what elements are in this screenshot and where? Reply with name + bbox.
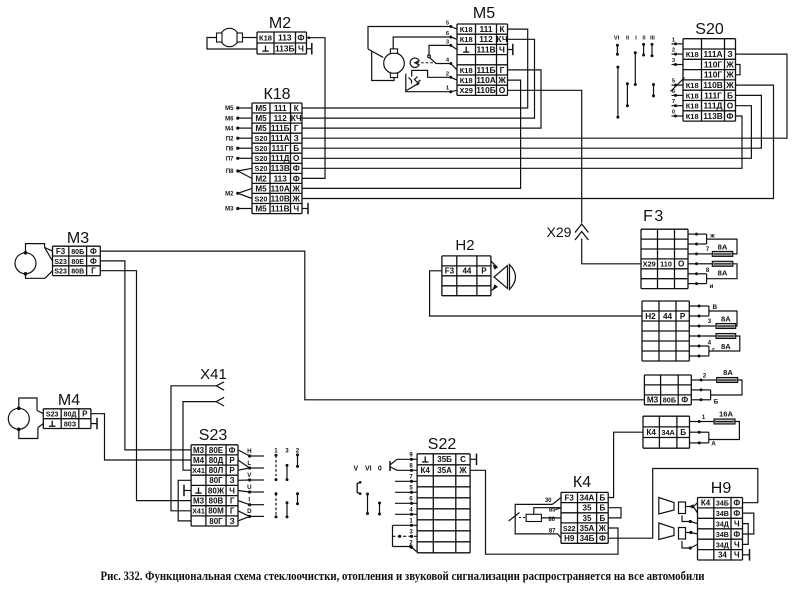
svg-text:S23: S23	[54, 268, 67, 276]
svg-text:112: 112	[479, 34, 493, 44]
svg-text:Б: Б	[293, 144, 299, 153]
svg-text:F3: F3	[565, 493, 575, 502]
svg-text:2: 2	[672, 48, 675, 54]
svg-text:80З: 80З	[64, 421, 77, 429]
svg-text:34Б: 34Б	[580, 534, 595, 543]
svg-text:80Е: 80Е	[209, 446, 224, 455]
svg-text:Ф: Ф	[733, 499, 740, 508]
svg-text:К4: К4	[701, 499, 711, 508]
svg-text:III: III	[650, 36, 655, 42]
svg-text:К18: К18	[263, 86, 290, 103]
svg-text:Ф: Ф	[293, 174, 300, 183]
svg-text:К18: К18	[686, 50, 699, 59]
svg-text:80Д: 80Д	[209, 456, 224, 465]
svg-text:80Ж: 80Ж	[208, 486, 225, 495]
svg-text:111Б: 111Б	[476, 65, 495, 75]
svg-text:34: 34	[718, 551, 727, 560]
svg-text:35А: 35А	[580, 524, 595, 533]
svg-text:Б: Б	[600, 514, 606, 523]
svg-text:О: О	[293, 154, 300, 163]
svg-text:М4: М4	[58, 392, 80, 409]
svg-text:I: I	[248, 497, 250, 504]
svg-text:Ч: Ч	[734, 551, 740, 560]
svg-text:Ч: Ч	[499, 44, 505, 54]
svg-text:М6: М6	[225, 116, 234, 122]
svg-text:К18: К18	[460, 35, 473, 44]
svg-text:Г: Г	[500, 65, 505, 75]
svg-text:Р: Р	[82, 410, 88, 419]
svg-text:К18: К18	[686, 112, 699, 121]
svg-text:К18: К18	[686, 91, 699, 100]
svg-text:М3: М3	[225, 207, 234, 213]
svg-text:111Д: 111Д	[271, 154, 290, 163]
svg-text:L: L	[247, 460, 251, 467]
svg-text:S20: S20	[255, 144, 268, 153]
svg-text:80В: 80В	[71, 268, 84, 276]
svg-text:S22: S22	[428, 436, 457, 453]
svg-text:Н2: Н2	[455, 237, 474, 254]
svg-text:VI: VI	[365, 466, 372, 473]
svg-text:М3: М3	[647, 396, 659, 405]
svg-text:S20: S20	[255, 194, 268, 203]
svg-text:Х29: Х29	[460, 86, 473, 95]
svg-text:44: 44	[663, 312, 673, 321]
svg-text:35: 35	[583, 514, 592, 523]
svg-text:К18: К18	[460, 25, 473, 34]
svg-text:110Б: 110Б	[476, 85, 496, 95]
svg-text:80Б: 80Б	[663, 396, 676, 405]
svg-text:Н2: Н2	[645, 312, 656, 321]
svg-text:М5: М5	[225, 106, 234, 112]
svg-text:г: г	[712, 347, 715, 354]
svg-text:В: В	[712, 304, 717, 311]
svg-text:М5: М5	[255, 204, 267, 213]
svg-text:S22: S22	[563, 525, 576, 533]
svg-text:К: К	[499, 24, 505, 34]
svg-text:К18: К18	[259, 33, 272, 42]
svg-text:VI: VI	[614, 36, 620, 42]
svg-text:Р: Р	[680, 312, 686, 321]
svg-text:Ж: Ж	[291, 184, 300, 193]
svg-text:З: З	[230, 476, 235, 485]
svg-text:Ж: Ж	[725, 70, 734, 80]
svg-text:111Г: 111Г	[271, 144, 289, 153]
svg-text:80М: 80М	[208, 507, 224, 516]
svg-text:110В: 110В	[271, 194, 290, 203]
svg-text:D: D	[247, 508, 252, 515]
svg-text:Х41: Х41	[192, 508, 205, 516]
svg-text:Ф: Ф	[733, 530, 740, 539]
svg-text:80Б: 80Б	[71, 248, 84, 256]
svg-text:К4: К4	[573, 474, 591, 491]
svg-text:Р: Р	[229, 456, 235, 465]
svg-text:Х29: Х29	[643, 260, 656, 269]
svg-text:34А: 34А	[661, 428, 675, 437]
svg-text:Б: Б	[714, 398, 719, 405]
svg-text:113В: 113В	[271, 164, 290, 173]
svg-text:А: А	[711, 440, 716, 447]
svg-text:16А: 16А	[719, 410, 733, 419]
svg-text:П2: П2	[226, 136, 234, 142]
svg-text:КЧ: КЧ	[496, 34, 507, 44]
svg-text:II: II	[626, 36, 630, 42]
svg-text:и: и	[710, 283, 714, 290]
svg-text:S20: S20	[695, 21, 724, 38]
svg-text:Х41: Х41	[200, 366, 227, 383]
svg-text:КЧ: КЧ	[291, 114, 302, 123]
svg-text:М5: М5	[255, 184, 267, 193]
svg-text:S20: S20	[255, 134, 268, 143]
svg-text:44: 44	[462, 267, 471, 276]
svg-text:35А: 35А	[437, 466, 452, 475]
svg-text:К4: К4	[421, 466, 431, 475]
svg-text:К18: К18	[460, 66, 473, 75]
svg-text:Н9: Н9	[564, 534, 575, 543]
svg-text:8А: 8А	[718, 268, 728, 277]
svg-text:Ф: Ф	[681, 396, 688, 405]
svg-text:М3: М3	[67, 230, 89, 247]
svg-text:F3: F3	[56, 247, 66, 256]
svg-text:Ж: Ж	[458, 466, 467, 475]
svg-text:З: З	[727, 49, 732, 59]
svg-text:Ф: Ф	[297, 32, 304, 42]
svg-text:Ч: Ч	[229, 486, 235, 495]
svg-text:М5: М5	[255, 124, 267, 133]
svg-text:80Г: 80Г	[209, 476, 223, 485]
svg-text:0: 0	[378, 466, 382, 473]
svg-text:Г: Г	[230, 507, 235, 516]
svg-text:34А: 34А	[580, 493, 595, 502]
svg-text:35: 35	[583, 504, 592, 513]
svg-text:S23: S23	[199, 427, 228, 444]
svg-text:8А: 8А	[718, 242, 728, 251]
svg-text:К18: К18	[460, 76, 473, 85]
svg-text:Б: Б	[600, 504, 606, 513]
svg-text:Н: Н	[247, 448, 252, 455]
svg-text:З: З	[230, 517, 235, 526]
svg-text:110: 110	[660, 260, 672, 269]
svg-text:Р: Р	[481, 267, 487, 276]
svg-text:Н9: Н9	[711, 480, 732, 497]
svg-text:Б: Б	[727, 90, 733, 100]
svg-text:Ч: Ч	[734, 540, 740, 549]
svg-text:113Б: 113Б	[275, 43, 295, 53]
svg-text:О: О	[499, 85, 506, 95]
svg-text:111В: 111В	[476, 44, 495, 54]
svg-text:Б: Б	[680, 428, 686, 437]
svg-text:110А: 110А	[476, 75, 496, 85]
svg-text:111А: 111А	[271, 134, 290, 143]
svg-text:Г: Г	[294, 124, 299, 133]
svg-text:111А: 111А	[703, 49, 722, 59]
svg-text:Ф: Ф	[90, 247, 97, 256]
svg-text:М5: М5	[255, 104, 267, 113]
svg-text:34В: 34В	[716, 531, 729, 539]
svg-text:Б: Б	[600, 493, 606, 502]
svg-text:111Г: 111Г	[704, 90, 722, 100]
svg-text:Ф: Ф	[733, 509, 740, 518]
svg-text:Ф: Ф	[599, 534, 606, 543]
svg-text:Г: Г	[91, 267, 96, 276]
svg-text:Ф: Ф	[229, 446, 236, 455]
svg-text:Ж: Ж	[497, 75, 506, 85]
svg-text:S20: S20	[255, 154, 268, 163]
svg-text:М2: М2	[269, 15, 291, 32]
svg-text:113: 113	[278, 32, 292, 42]
svg-text:К18: К18	[686, 102, 699, 111]
svg-text:Г: Г	[230, 497, 235, 506]
svg-text:М3: М3	[193, 497, 205, 506]
svg-text:Х29: Х29	[547, 224, 572, 240]
svg-text:111: 111	[479, 24, 492, 34]
svg-text:80Е: 80Е	[71, 258, 84, 266]
svg-text:О: О	[678, 260, 685, 269]
svg-text:V: V	[353, 466, 358, 473]
svg-text:S23: S23	[54, 258, 67, 266]
svg-text:3: 3	[285, 448, 289, 455]
svg-text:8А: 8А	[723, 368, 733, 377]
svg-text:U: U	[247, 484, 252, 491]
svg-text:0: 0	[642, 36, 645, 42]
svg-text:О: О	[727, 101, 734, 111]
svg-text:30: 30	[545, 498, 552, 504]
svg-text:Ж: Ж	[291, 194, 300, 203]
svg-text:34Д: 34Д	[716, 541, 729, 549]
svg-text:111Д: 111Д	[703, 101, 722, 111]
svg-text:F3: F3	[445, 267, 455, 276]
svg-text:П7: П7	[226, 157, 234, 163]
svg-text:С: С	[460, 455, 466, 464]
svg-text:П6: П6	[226, 146, 234, 152]
svg-text:К4: К4	[646, 428, 656, 437]
svg-text:Ж: Ж	[598, 524, 607, 533]
svg-text:110А: 110А	[271, 184, 290, 193]
svg-text:8А: 8А	[721, 315, 731, 324]
svg-text:1: 1	[274, 448, 278, 455]
svg-text:М2: М2	[255, 174, 267, 183]
svg-text:Ж: Ж	[725, 80, 734, 90]
svg-text:113: 113	[274, 174, 288, 183]
svg-text:111Б: 111Б	[271, 124, 290, 133]
svg-text:110Г: 110Г	[704, 59, 723, 69]
svg-text:К18: К18	[686, 81, 699, 90]
svg-text:Ч: Ч	[734, 520, 740, 529]
svg-text:Ф: Ф	[293, 164, 300, 173]
svg-text:7: 7	[672, 99, 675, 105]
svg-text:З: З	[294, 134, 299, 143]
svg-text:112: 112	[274, 114, 288, 123]
svg-text:110В: 110В	[703, 80, 723, 90]
svg-text:М4: М4	[225, 126, 234, 132]
svg-text:85: 85	[549, 508, 556, 514]
svg-text:М4: М4	[193, 456, 205, 465]
svg-text:Ч: Ч	[293, 204, 299, 213]
svg-text:2: 2	[446, 71, 449, 77]
svg-text:113В: 113В	[703, 111, 723, 121]
svg-text:Р: Р	[229, 466, 235, 475]
svg-text:35Б: 35Б	[437, 455, 452, 464]
svg-text:Ж: Ж	[725, 59, 734, 69]
svg-text:М5: М5	[255, 114, 267, 123]
svg-text:S23: S23	[46, 411, 59, 419]
svg-text:М5: М5	[473, 5, 495, 22]
svg-text:34Д: 34Д	[716, 521, 729, 529]
svg-text:Ф: Ф	[90, 257, 97, 266]
svg-text:Х41: Х41	[192, 467, 205, 475]
svg-text:М3: М3	[193, 446, 205, 455]
svg-text:Ф: Ф	[726, 111, 733, 121]
svg-text:80В: 80В	[209, 497, 224, 506]
svg-text:80Г: 80Г	[209, 517, 223, 526]
svg-text:111: 111	[274, 104, 287, 113]
svg-text:0: 0	[672, 110, 675, 116]
svg-text:S20: S20	[255, 164, 268, 173]
svg-text:34В: 34В	[716, 510, 729, 518]
svg-text:8А: 8А	[721, 342, 731, 351]
svg-text:110Г: 110Г	[704, 70, 723, 80]
svg-text:П8: П8	[226, 169, 234, 175]
svg-text:80Д: 80Д	[64, 411, 77, 419]
svg-text:34Б: 34Б	[716, 500, 729, 508]
svg-text:М2: М2	[225, 191, 234, 197]
svg-text:Ч: Ч	[298, 43, 304, 53]
svg-text:Рис. 332. Функциональная схема: Рис. 332. Функциональная схема стеклоочи…	[101, 569, 705, 583]
svg-text:111В: 111В	[271, 204, 290, 213]
svg-text:80Л: 80Л	[209, 466, 224, 475]
svg-text:F3: F3	[643, 208, 665, 225]
